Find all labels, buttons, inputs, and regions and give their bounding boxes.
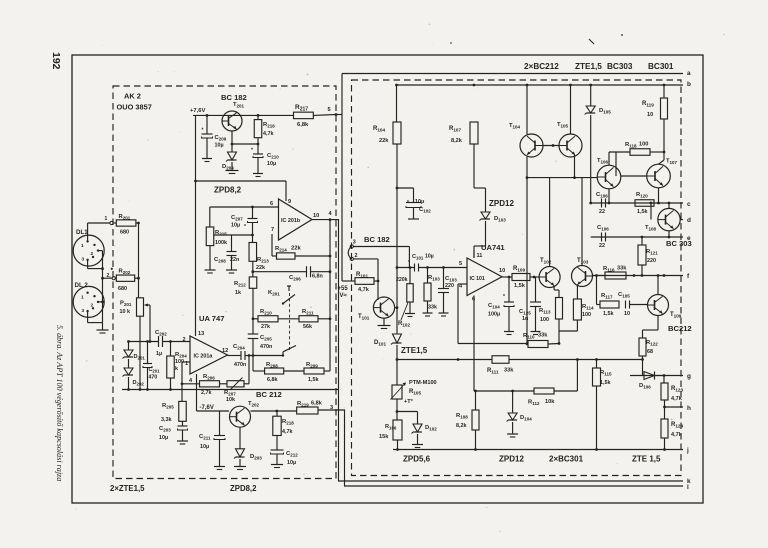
svg-text:2: 2 — [91, 302, 94, 308]
svg-text:T107: T107 — [666, 159, 678, 166]
svg-text:1,5k: 1,5k — [637, 209, 648, 215]
svg-text:ZTE 1,5: ZTE 1,5 — [632, 455, 661, 464]
svg-text:2×BC301: 2×BC301 — [549, 455, 584, 464]
svg-text:680: 680 — [120, 230, 129, 236]
svg-text:33k: 33k — [428, 305, 437, 311]
svg-text:27k: 27k — [261, 324, 270, 330]
svg-text:*: * — [251, 148, 253, 154]
svg-text:C212: C212 — [286, 451, 298, 458]
svg-text:100: 100 — [540, 317, 549, 323]
svg-text:T103: T103 — [577, 258, 589, 265]
svg-text:C203: C203 — [159, 426, 171, 433]
svg-text:DL 2: DL 2 — [75, 282, 89, 289]
svg-text:R110: R110 — [523, 333, 535, 340]
svg-text:R112: R112 — [528, 400, 540, 407]
svg-text:P201: P201 — [120, 301, 132, 308]
svg-text:C208: C208 — [214, 257, 226, 264]
svg-text:22k: 22k — [256, 265, 265, 271]
svg-text:ZTE1,5: ZTE1,5 — [575, 62, 602, 71]
svg-text:d: d — [687, 217, 691, 224]
svg-text:C101: C101 — [412, 254, 424, 261]
svg-text:6,8k: 6,8k — [297, 122, 309, 128]
svg-text:1,5k: 1,5k — [603, 311, 614, 317]
svg-text:1k: 1k — [235, 290, 241, 296]
svg-text:C103: C103 — [445, 276, 457, 283]
svg-text:C210: C210 — [267, 153, 279, 160]
svg-text:100µ: 100µ — [488, 312, 500, 318]
svg-text:68: 68 — [647, 349, 653, 355]
svg-text:1,5k: 1,5k — [514, 283, 526, 289]
svg-text:R218: R218 — [282, 419, 294, 426]
svg-text:D202: D202 — [133, 380, 145, 387]
svg-text:R115: R115 — [600, 370, 612, 377]
svg-text:a: a — [687, 70, 691, 77]
svg-text:R117: R117 — [601, 293, 613, 300]
svg-text:R105: R105 — [409, 389, 421, 396]
svg-text:b: b — [687, 81, 691, 88]
svg-text:h: h — [687, 405, 691, 412]
svg-text:33k: 33k — [617, 266, 627, 272]
svg-text:R212: R212 — [234, 281, 246, 288]
svg-text:D105: D105 — [599, 108, 611, 115]
svg-text:1: 1 — [81, 243, 84, 249]
svg-text:C201: C201 — [149, 367, 161, 374]
svg-text:3: 3 — [82, 257, 85, 263]
svg-text:*: * — [408, 260, 410, 266]
svg-text:*: * — [244, 224, 246, 230]
svg-text:K201: K201 — [268, 290, 280, 297]
svg-text:100: 100 — [639, 142, 648, 148]
svg-text:6: 6 — [270, 201, 273, 207]
svg-text:D103: D103 — [494, 216, 506, 223]
svg-text:R213: R213 — [257, 257, 269, 264]
svg-text:3: 3 — [353, 240, 356, 246]
svg-text:C102: C102 — [419, 207, 431, 214]
svg-text:6,8k: 6,8k — [311, 401, 323, 407]
svg-text:22k: 22k — [379, 138, 389, 144]
svg-text:D106: D106 — [639, 383, 651, 390]
svg-text:22k: 22k — [291, 246, 301, 252]
svg-text:5. ábra. Az APT 100 végerősítő: 5. ábra. Az APT 100 végerősítő kapcsolás… — [55, 325, 64, 481]
svg-text:10: 10 — [499, 268, 505, 274]
svg-text:R215: R215 — [215, 230, 227, 237]
svg-text:33k: 33k — [504, 368, 514, 374]
svg-text:BC212: BC212 — [668, 324, 692, 333]
svg-text:R104: R104 — [373, 126, 385, 133]
svg-text:R107: R107 — [449, 126, 461, 133]
svg-text:C207: C207 — [231, 215, 243, 222]
svg-text:D104: D104 — [520, 415, 532, 422]
svg-text:R208: R208 — [266, 362, 278, 369]
svg-text:470: 470 — [149, 375, 158, 381]
svg-text:100k: 100k — [215, 240, 227, 246]
svg-text:10µ: 10µ — [231, 223, 240, 229]
svg-text:R102: R102 — [398, 321, 410, 328]
svg-text:+T°: +T° — [404, 399, 413, 405]
svg-text:4,7k: 4,7k — [671, 432, 683, 438]
svg-text:R118: R118 — [625, 142, 637, 149]
svg-text:470n: 470n — [234, 362, 246, 368]
svg-text:D203: D203 — [250, 454, 262, 461]
svg-text:R123: R123 — [671, 386, 683, 393]
svg-text:T201: T201 — [233, 102, 245, 109]
svg-text:R205: R205 — [162, 403, 174, 410]
svg-text:2: 2 — [355, 253, 358, 259]
svg-text:4,7k: 4,7k — [358, 287, 370, 293]
svg-text:DL1: DL1 — [76, 229, 88, 236]
svg-text:BC 212: BC 212 — [256, 390, 282, 399]
svg-text:6,8k: 6,8k — [267, 377, 278, 383]
svg-text:C105: C105 — [618, 292, 630, 299]
svg-text:T105: T105 — [557, 122, 569, 129]
svg-text:IC 201a: IC 201a — [194, 354, 214, 360]
svg-text:AK 2: AK 2 — [124, 92, 141, 101]
svg-text:R122: R122 — [646, 340, 658, 347]
svg-text:C209: C209 — [215, 135, 227, 142]
svg-text:C206: C206 — [289, 275, 301, 282]
svg-text:R103: R103 — [428, 275, 440, 282]
svg-text:c: c — [687, 201, 691, 208]
svg-text:3: 3 — [330, 405, 333, 411]
svg-text:2: 2 — [183, 337, 186, 343]
svg-text:12: 12 — [222, 348, 228, 354]
svg-text:T104: T104 — [509, 123, 521, 130]
svg-text:R108: R108 — [456, 413, 468, 420]
svg-text:4,7k: 4,7k — [282, 429, 293, 435]
svg-text:22: 22 — [599, 209, 605, 215]
svg-text:R116: R116 — [603, 266, 615, 273]
svg-text:22: 22 — [599, 243, 605, 249]
svg-text:4,7k: 4,7k — [671, 396, 683, 402]
svg-text:10µ: 10µ — [425, 254, 434, 260]
svg-text:8,2k: 8,2k — [456, 423, 467, 429]
svg-text:R204: R204 — [175, 352, 187, 359]
svg-text:1,5k: 1,5k — [308, 377, 319, 383]
svg-text:220: 220 — [445, 283, 454, 289]
svg-text:10: 10 — [313, 213, 319, 219]
svg-text:1: 1 — [105, 216, 108, 222]
svg-text:R206: R206 — [203, 374, 215, 381]
svg-text:+7,6V: +7,6V — [190, 108, 205, 114]
svg-text:9: 9 — [288, 199, 291, 205]
svg-text:1: 1 — [81, 295, 84, 301]
svg-text:13: 13 — [198, 331, 204, 337]
svg-text:R211: R211 — [302, 309, 314, 316]
svg-text:220k: 220k — [396, 277, 408, 283]
svg-text:T109: T109 — [670, 312, 682, 319]
svg-text:BC 182: BC 182 — [221, 93, 247, 102]
svg-text:+55: +55 — [338, 286, 349, 292]
svg-text:2×ZTE1,5: 2×ZTE1,5 — [110, 484, 145, 493]
svg-text:BC 182: BC 182 — [364, 235, 390, 244]
svg-text:j: j — [686, 447, 689, 454]
svg-text:10µ: 10µ — [159, 435, 168, 441]
svg-text:C106: C106 — [597, 225, 609, 232]
svg-text:C104: C104 — [488, 303, 500, 310]
svg-text:R109: R109 — [513, 266, 525, 273]
svg-text:192: 192 — [50, 52, 62, 70]
svg-text:R120: R120 — [636, 192, 648, 199]
svg-text:BC303: BC303 — [607, 62, 633, 71]
svg-text:10µ: 10µ — [287, 460, 296, 466]
svg-text:470n: 470n — [260, 344, 272, 350]
svg-text:UA 747: UA 747 — [199, 314, 224, 323]
svg-text:R202: R202 — [119, 269, 131, 276]
svg-text:C204: C204 — [233, 344, 245, 351]
svg-text:D204: D204 — [222, 164, 234, 171]
svg-text:8,2k: 8,2k — [451, 138, 463, 144]
svg-text:7: 7 — [271, 227, 274, 233]
svg-text:C202: C202 — [155, 330, 167, 337]
svg-text:10: 10 — [647, 112, 653, 118]
svg-text:1µ: 1µ — [156, 351, 162, 357]
svg-text:R209: R209 — [306, 362, 318, 369]
svg-text:*: * — [407, 200, 409, 206]
svg-text:PTM-M100: PTM-M100 — [409, 380, 437, 386]
svg-text:22n: 22n — [230, 257, 239, 263]
svg-text:ZPD12: ZPD12 — [499, 455, 524, 464]
svg-text:C211: C211 — [199, 434, 211, 441]
svg-text:BC301: BC301 — [648, 62, 674, 71]
svg-text:D201: D201 — [134, 354, 146, 361]
svg-text:2,: 2, — [107, 273, 112, 279]
svg-text:33k: 33k — [538, 333, 548, 339]
svg-text:3: 3 — [82, 308, 85, 314]
svg-text:T202: T202 — [248, 401, 260, 408]
svg-text:10: 10 — [624, 311, 630, 317]
svg-text:R119: R119 — [642, 101, 654, 108]
svg-text:C125: C125 — [519, 309, 531, 316]
svg-text:6,8n: 6,8n — [312, 274, 323, 280]
svg-text:ZPD8,2: ZPD8,2 — [230, 484, 257, 493]
svg-text:C106: C106 — [596, 192, 608, 199]
svg-text:11: 11 — [477, 253, 483, 259]
svg-text:10µ: 10µ — [200, 444, 209, 450]
svg-text:10µ: 10µ — [215, 143, 224, 149]
svg-text:UA741: UA741 — [481, 243, 505, 252]
svg-text:10k: 10k — [545, 399, 555, 405]
svg-text:R121: R121 — [646, 249, 658, 256]
svg-text:ZPD5,6: ZPD5,6 — [403, 455, 431, 464]
svg-text:R124: R124 — [671, 422, 683, 429]
svg-text:10k: 10k — [226, 397, 235, 403]
svg-text:R113: R113 — [539, 308, 551, 315]
svg-text:-7,6V: -7,6V — [200, 405, 214, 411]
svg-text:C205: C205 — [260, 335, 272, 342]
svg-text:BC 303: BC 303 — [666, 239, 692, 248]
svg-text:4,7k: 4,7k — [263, 131, 274, 137]
svg-text:2: 2 — [91, 251, 94, 257]
svg-text:R207: R207 — [224, 390, 236, 397]
svg-text:3,3k: 3,3k — [161, 417, 172, 423]
svg-text:15k: 15k — [379, 434, 389, 440]
svg-text:R114: R114 — [582, 304, 594, 311]
svg-text:56k: 56k — [303, 324, 312, 330]
svg-text:g: g — [687, 373, 691, 380]
svg-text:*: * — [202, 128, 204, 134]
svg-text:IC 201b: IC 201b — [281, 218, 301, 224]
svg-text:l: l — [687, 484, 689, 491]
svg-text:OUO 3857: OUO 3857 — [117, 103, 152, 112]
svg-text:R210: R210 — [260, 309, 272, 316]
svg-text:10µ: 10µ — [267, 161, 276, 167]
svg-text:680: 680 — [118, 286, 127, 292]
svg-text:ZPD12: ZPD12 — [489, 199, 514, 208]
svg-text:T108: T108 — [645, 225, 657, 232]
svg-text:V≈: V≈ — [340, 293, 348, 299]
svg-text:5: 5 — [328, 107, 331, 113]
svg-text:2×BC212: 2×BC212 — [524, 62, 559, 71]
svg-text:T101: T101 — [358, 314, 370, 321]
svg-text:R214: R214 — [275, 246, 287, 253]
svg-text:5: 5 — [459, 261, 462, 267]
svg-text:IC 101: IC 101 — [470, 276, 485, 282]
svg-text:D101: D101 — [374, 340, 386, 347]
svg-text:R219: R219 — [297, 401, 309, 408]
svg-text:R216: R216 — [263, 122, 275, 129]
svg-text:k: k — [175, 366, 178, 372]
svg-text:10µ: 10µ — [415, 199, 424, 205]
svg-text:R106: R106 — [385, 424, 397, 431]
svg-text:2,7k: 2,7k — [201, 390, 212, 396]
svg-text:10 k: 10 k — [120, 309, 131, 315]
svg-text:ZPD8,2: ZPD8,2 — [214, 186, 242, 195]
svg-text:D102: D102 — [425, 425, 437, 432]
svg-text:ZTE1,5: ZTE1,5 — [401, 346, 428, 355]
svg-text:R111: R111 — [487, 368, 499, 375]
svg-text:220: 220 — [647, 258, 656, 264]
svg-text:100: 100 — [582, 312, 591, 318]
svg-text:T106: T106 — [597, 158, 609, 165]
svg-text:R201: R201 — [119, 214, 131, 221]
svg-text:1,5k: 1,5k — [600, 380, 611, 386]
svg-text:*: * — [503, 294, 505, 300]
